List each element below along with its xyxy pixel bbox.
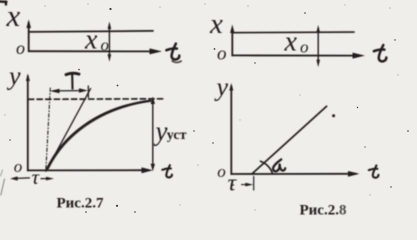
svg-text:o: o	[217, 44, 227, 65]
svg-text:y: y	[153, 116, 168, 146]
svg-text:y: y	[6, 62, 21, 91]
svg-text:o: o	[16, 38, 25, 58]
svg-text:o: o	[101, 36, 110, 55]
svg-text:x: x	[6, 0, 21, 33]
svg-text:уст: уст	[167, 128, 187, 143]
svg-text:o: o	[14, 157, 22, 176]
svg-text:x: x	[284, 26, 298, 57]
svg-text:τ: τ	[228, 171, 238, 197]
svg-text:Рис.2.7: Рис.2.7	[57, 196, 104, 212]
svg-text:o: o	[300, 37, 309, 56]
svg-text:y: y	[214, 73, 229, 102]
svg-text:o: o	[217, 162, 226, 181]
svg-text:Рис.2.8: Рис.2.8	[300, 203, 347, 219]
svg-text:x: x	[209, 8, 223, 40]
svg-text:x: x	[84, 24, 98, 55]
